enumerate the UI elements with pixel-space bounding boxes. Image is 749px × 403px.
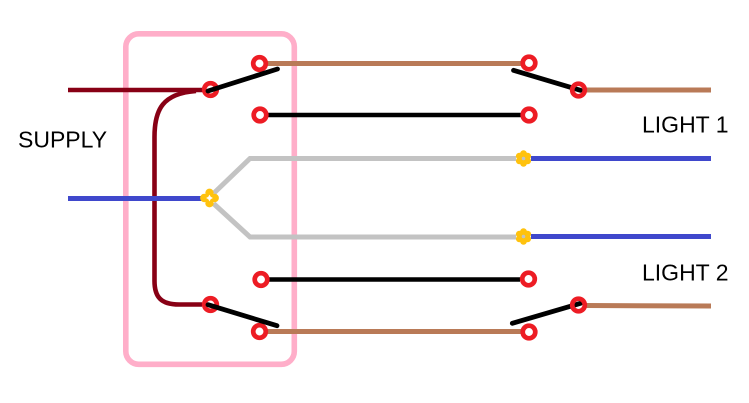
terminal: SW3 contact bottom [523,109,536,122]
svg-text:LIGHT 2: LIGHT 2 [642,260,729,286]
wire: brown feed to LIGHT 2 [585,303,711,309]
wire: black strapping, bottom run [269,277,520,282]
terminal: SW4 common [572,299,585,312]
terminal: SW2 contact bottom [253,325,266,338]
wire: brown feed to LIGHT 1 [585,88,711,93]
switch lever SW1 (in box, top) [208,69,278,91]
terminal: SW1 common [204,83,217,96]
wire nut: light 2 joint [516,228,531,245]
wire nut: neutral junction in box [200,189,219,208]
terminal: SW4 contact bottom [523,326,536,339]
wire: supply neutral (blue) horizontal [68,196,204,201]
switch lever SW4 (light 2 switch) [512,303,580,323]
terminal: SW3 common [572,84,585,97]
wire: gray neutral upper run to light 1 [214,159,517,194]
wire: brown switched live, top switch to light1 switch [267,61,521,66]
wire: gray neutral lower run to light 2 [214,204,517,238]
wire: blue neutral to LIGHT 1 [531,156,711,161]
terminal: SW1 contact bottom [254,109,267,122]
wire: brown switched live, bottom switch to light2 switch [267,329,521,334]
wire: dark red loop from live to bottom switch common [155,91,203,305]
terminal: SW1 contact top [253,57,266,70]
wire: black strapping, top run [268,113,521,118]
wire: blue neutral to LIGHT 2 [531,234,711,239]
switch lever SW3 (light 1 switch) [514,70,581,90]
svg-text:SUPPLY: SUPPLY [18,127,107,153]
terminal: SW3 contact top [523,57,536,70]
junction box (pink rounded enclosure) [126,34,294,365]
switch lever SW2 (in box, bottom) [208,305,277,326]
terminal: SW2 contact top [255,273,268,286]
terminal: SW4 contact top [522,273,535,286]
wire nut: light 1 joint [516,150,531,167]
svg-text:LIGHT 1: LIGHT 1 [642,111,729,137]
wire: supply live (dark red) horizontal [68,88,203,93]
terminal: SW2 common [204,298,217,311]
